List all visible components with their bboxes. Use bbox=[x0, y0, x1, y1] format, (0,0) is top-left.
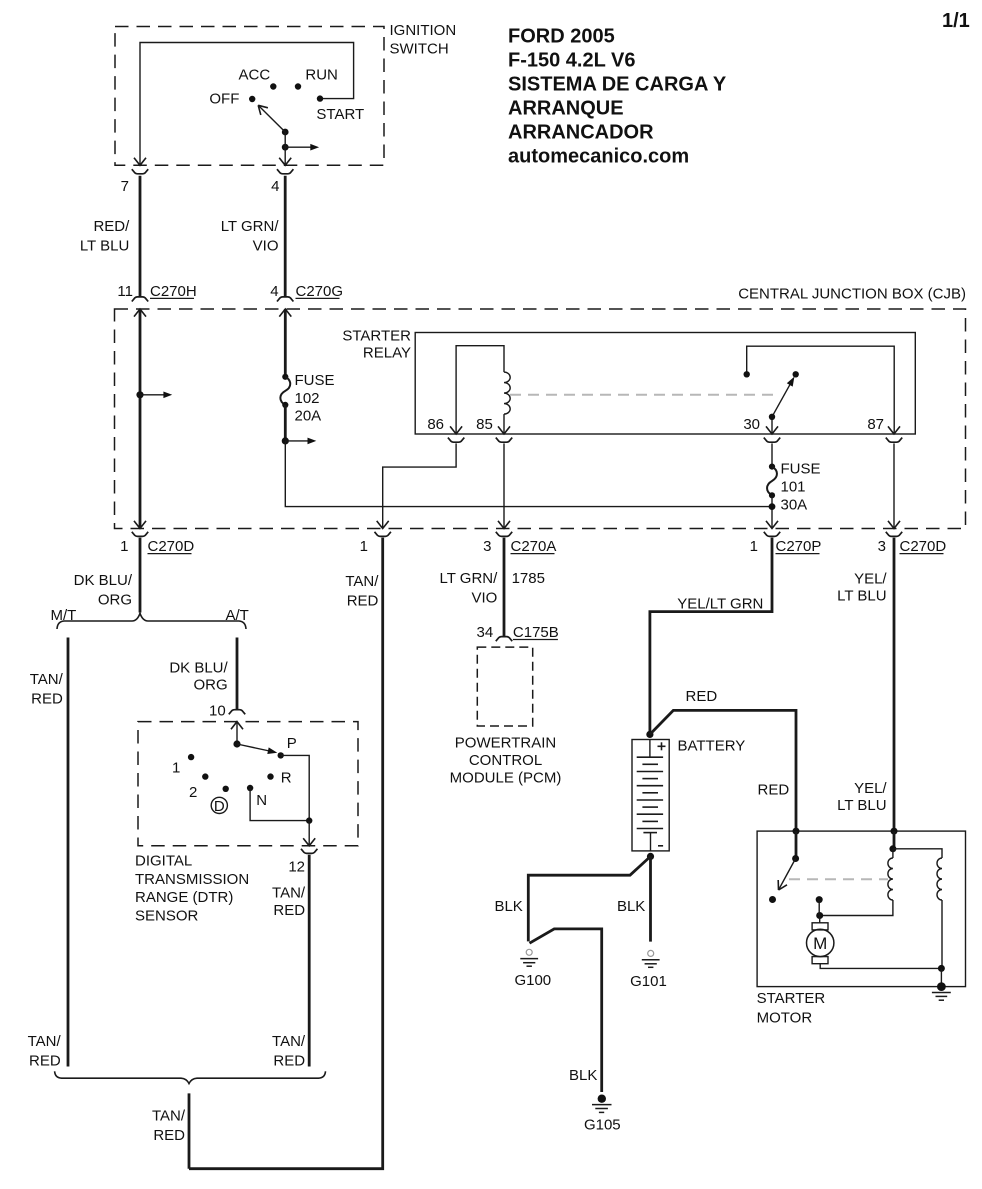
svg-text:YEL/: YEL/ bbox=[854, 571, 887, 588]
svg-text:RED: RED bbox=[347, 592, 379, 609]
svg-text:IGNITION: IGNITION bbox=[390, 22, 457, 39]
svg-text:STARTER: STARTER bbox=[757, 990, 826, 1007]
svg-text:R: R bbox=[281, 770, 292, 787]
svg-text:1785: 1785 bbox=[512, 570, 545, 587]
svg-text:YEL/: YEL/ bbox=[854, 780, 887, 797]
svg-text:FUSE: FUSE bbox=[295, 372, 335, 389]
svg-text:1: 1 bbox=[750, 538, 758, 555]
svg-text:1: 1 bbox=[360, 538, 368, 555]
svg-text:TRANSMISSION: TRANSMISSION bbox=[135, 871, 249, 888]
svg-text:C270A: C270A bbox=[511, 538, 557, 555]
svg-text:ORG: ORG bbox=[194, 676, 228, 693]
svg-text:C270G: C270G bbox=[296, 283, 344, 300]
svg-text:RED: RED bbox=[273, 902, 305, 919]
svg-text:CONTROL: CONTROL bbox=[469, 752, 542, 769]
svg-text:STARTER: STARTER bbox=[342, 328, 411, 345]
svg-text:YEL/LT GRN: YEL/LT GRN bbox=[677, 596, 763, 613]
svg-text:TAN/: TAN/ bbox=[152, 1108, 186, 1125]
svg-text:POWERTRAIN: POWERTRAIN bbox=[455, 735, 556, 752]
svg-text:SENSOR: SENSOR bbox=[135, 908, 199, 925]
svg-text:LT GRN/: LT GRN/ bbox=[221, 218, 280, 235]
svg-text:N: N bbox=[256, 792, 267, 809]
svg-text:3: 3 bbox=[483, 538, 491, 555]
svg-text:ARRANQUE: ARRANQUE bbox=[508, 98, 624, 120]
svg-text:12: 12 bbox=[288, 859, 305, 876]
svg-text:101: 101 bbox=[781, 478, 806, 495]
svg-text:BLK: BLK bbox=[617, 898, 645, 915]
svg-text:85: 85 bbox=[476, 416, 493, 433]
svg-text:C270P: C270P bbox=[776, 538, 822, 555]
svg-text:MOTOR: MOTOR bbox=[757, 1009, 813, 1026]
svg-text:4: 4 bbox=[270, 283, 278, 300]
svg-text:DK BLU/: DK BLU/ bbox=[169, 659, 228, 676]
svg-text:BATTERY: BATTERY bbox=[678, 738, 746, 755]
svg-text:A/T: A/T bbox=[226, 607, 249, 624]
svg-text:MODULE (PCM): MODULE (PCM) bbox=[450, 770, 562, 787]
svg-text:SWITCH: SWITCH bbox=[390, 41, 449, 58]
svg-text:TAN/: TAN/ bbox=[272, 1033, 306, 1050]
svg-text:30: 30 bbox=[743, 416, 760, 433]
svg-text:F-150 4.2L V6: F-150 4.2L V6 bbox=[508, 50, 635, 72]
svg-text:20A: 20A bbox=[295, 408, 322, 425]
svg-text:30A: 30A bbox=[781, 496, 808, 513]
svg-text:START: START bbox=[316, 106, 364, 123]
svg-text:M: M bbox=[813, 934, 827, 953]
svg-text:TAN/: TAN/ bbox=[30, 671, 64, 688]
svg-text:RELAY: RELAY bbox=[363, 345, 411, 362]
svg-text:2: 2 bbox=[189, 784, 197, 801]
svg-text:ARRANCADOR: ARRANCADOR bbox=[508, 122, 654, 144]
svg-text:SISTEMA DE CARGA Y: SISTEMA DE CARGA Y bbox=[508, 74, 727, 96]
svg-text:RED: RED bbox=[31, 690, 63, 707]
svg-text:RED: RED bbox=[273, 1053, 305, 1070]
svg-text:ORG: ORG bbox=[98, 592, 132, 609]
svg-text:DK BLU/: DK BLU/ bbox=[74, 572, 133, 589]
svg-text:3: 3 bbox=[878, 538, 886, 555]
svg-text:1: 1 bbox=[172, 760, 180, 777]
svg-text:RED: RED bbox=[758, 782, 790, 799]
svg-text:BLK: BLK bbox=[494, 898, 522, 915]
svg-text:RED: RED bbox=[29, 1053, 61, 1070]
svg-text:34: 34 bbox=[477, 624, 494, 641]
svg-text:automecanico.com: automecanico.com bbox=[508, 146, 689, 168]
svg-text:RED: RED bbox=[686, 688, 718, 705]
svg-text:1/1: 1/1 bbox=[942, 10, 970, 32]
svg-text:C175B: C175B bbox=[513, 624, 559, 641]
svg-text:C270H: C270H bbox=[150, 283, 197, 300]
svg-text:CENTRAL JUNCTION BOX (CJB): CENTRAL JUNCTION BOX (CJB) bbox=[738, 286, 966, 303]
svg-text:BLK: BLK bbox=[569, 1067, 597, 1084]
svg-text:P: P bbox=[287, 735, 297, 752]
svg-text:ACC: ACC bbox=[239, 67, 271, 84]
svg-text:OFF: OFF bbox=[209, 91, 239, 108]
svg-text:C270D: C270D bbox=[148, 538, 195, 555]
svg-text:G100: G100 bbox=[514, 972, 551, 989]
svg-text:10: 10 bbox=[209, 702, 226, 719]
svg-text:RED/: RED/ bbox=[93, 218, 130, 235]
svg-text:FUSE: FUSE bbox=[781, 461, 821, 478]
svg-text:LT BLU: LT BLU bbox=[837, 587, 886, 604]
svg-text:LT BLU: LT BLU bbox=[80, 237, 129, 254]
svg-text:DIGITAL: DIGITAL bbox=[135, 852, 192, 869]
svg-text:M/T: M/T bbox=[51, 607, 77, 624]
svg-text:TAN/: TAN/ bbox=[345, 573, 379, 590]
svg-text:87: 87 bbox=[867, 416, 884, 433]
svg-text:4: 4 bbox=[271, 178, 279, 195]
svg-text:VIO: VIO bbox=[471, 589, 497, 606]
svg-text:D: D bbox=[214, 798, 225, 815]
svg-text:102: 102 bbox=[295, 390, 320, 407]
svg-text:C270D: C270D bbox=[900, 538, 947, 555]
svg-text:G101: G101 bbox=[630, 973, 667, 990]
svg-text:FORD 2005: FORD 2005 bbox=[508, 26, 615, 48]
svg-text:VIO: VIO bbox=[253, 237, 279, 254]
svg-text:LT BLU: LT BLU bbox=[837, 797, 886, 814]
svg-text:RANGE (DTR): RANGE (DTR) bbox=[135, 889, 233, 906]
svg-text:86: 86 bbox=[427, 416, 444, 433]
svg-text:LT GRN/: LT GRN/ bbox=[440, 570, 499, 587]
svg-text:TAN/: TAN/ bbox=[28, 1033, 62, 1050]
svg-text:G105: G105 bbox=[584, 1117, 621, 1134]
svg-text:TAN/: TAN/ bbox=[272, 884, 306, 901]
svg-text:7: 7 bbox=[121, 178, 129, 195]
svg-text:RED: RED bbox=[153, 1127, 185, 1144]
svg-text:11: 11 bbox=[117, 283, 133, 300]
svg-text:RUN: RUN bbox=[305, 67, 338, 84]
svg-text:1: 1 bbox=[120, 538, 128, 555]
